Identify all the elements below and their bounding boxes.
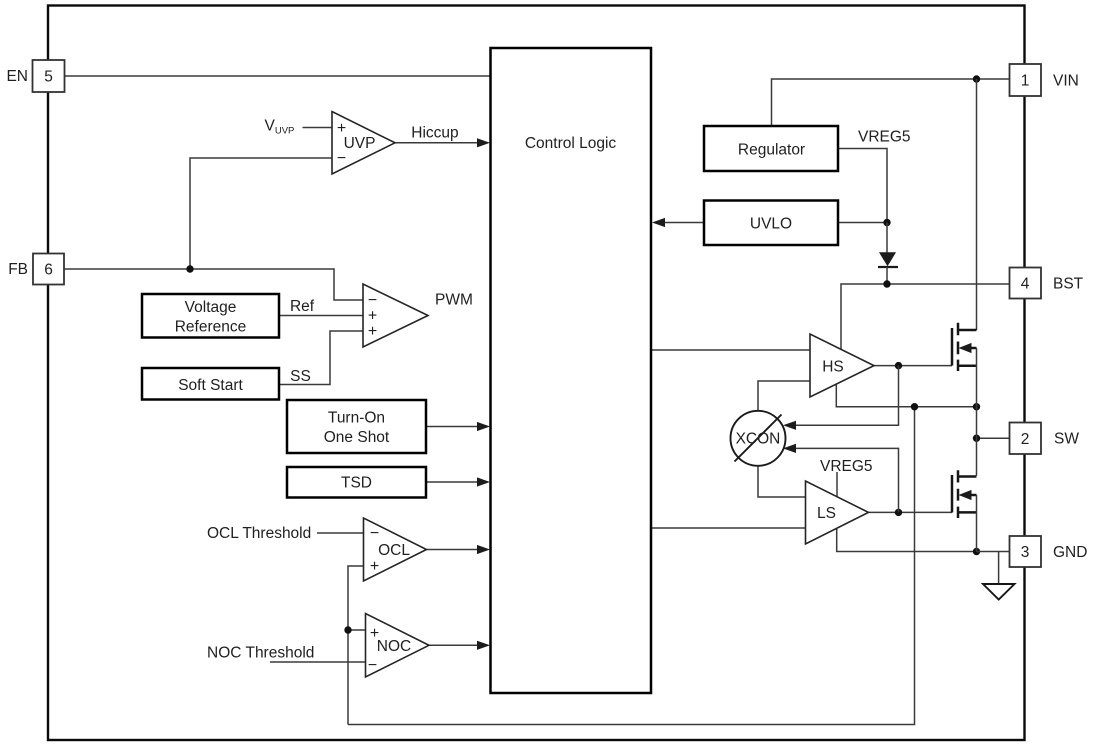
wire LS lower rail to GND <box>837 529 977 552</box>
op-amp PWM comparator <box>363 284 428 347</box>
svg-text:3: 3 <box>1021 544 1030 561</box>
arrowhead TSD <box>477 477 490 486</box>
svg-text:+: + <box>370 558 379 575</box>
wire SW rail between FETs <box>976 407 978 476</box>
wire LS output up to XCON <box>796 448 899 512</box>
svg-text:GND: GND <box>1053 544 1087 561</box>
XCON cross-conduction block <box>731 411 786 466</box>
wire HS output down to XCON <box>796 366 899 426</box>
svg-text:XCON: XCON <box>736 431 781 448</box>
node sense junction <box>344 626 351 633</box>
svg-text:SS: SS <box>290 368 311 385</box>
svg-text:OCL Threshold: OCL Threshold <box>207 525 311 542</box>
op-amp NOC comparator <box>366 614 430 678</box>
wire SW to pin <box>977 437 1010 439</box>
ground symbol <box>998 552 1000 585</box>
arrowhead OCL <box>477 545 490 554</box>
arrowhead XCON lower <box>783 444 796 453</box>
svg-text:−: − <box>370 525 379 542</box>
arrowhead UVLO <box>652 218 665 227</box>
node GND junction <box>973 548 980 555</box>
svg-text:+: + <box>368 308 377 325</box>
svg-text:One Shot: One Shot <box>324 429 390 446</box>
svg-text:Voltage: Voltage <box>185 299 237 316</box>
wire FB branch to UVP minus <box>190 158 332 269</box>
wire HS lower rail to SW <box>836 385 976 407</box>
wire VUVP input <box>303 127 333 129</box>
node sense line junction <box>911 403 918 410</box>
svg-text:TSD: TSD <box>341 475 372 492</box>
diode D1 cathode wire <box>886 267 888 284</box>
svg-text:VREG5: VREG5 <box>820 458 873 475</box>
svg-text:Soft Start: Soft Start <box>178 377 243 394</box>
svg-text:Reference: Reference <box>175 319 247 336</box>
pin 2 SW <box>1010 423 1042 455</box>
svg-text:LS: LS <box>817 505 836 522</box>
diode D1 <box>879 252 896 266</box>
svg-text:HS: HS <box>822 359 844 376</box>
node VREG5-UVLO junction <box>883 219 890 226</box>
wire HS output to FET gate <box>874 365 952 367</box>
svg-text:1: 1 <box>1021 73 1030 90</box>
svg-text:−: − <box>368 292 377 309</box>
transistor Q2 low-side FET <box>952 470 977 551</box>
node SW pin junction <box>973 435 980 442</box>
svg-text:Ref: Ref <box>290 298 315 315</box>
node LS gate junction <box>895 509 902 516</box>
arrowhead hiccup <box>477 138 490 147</box>
svg-text:4: 4 <box>1021 276 1030 293</box>
wire OCL plus / current sense vertical <box>348 566 364 725</box>
svg-text:−: − <box>368 657 377 674</box>
pin 3 GND <box>1010 536 1042 567</box>
pin 4 BST <box>1010 268 1042 299</box>
svg-text:BST: BST <box>1053 276 1084 293</box>
wire BST line <box>841 284 1010 349</box>
svg-text:VIN: VIN <box>1053 73 1079 90</box>
op-amp OCL comparator <box>364 518 427 581</box>
wire EN pin to Control Logic <box>65 75 491 77</box>
wire TSD output <box>426 481 478 483</box>
svg-text:FB: FB <box>8 261 28 278</box>
block Soft Start <box>142 368 279 400</box>
pin 1 VIN <box>1010 64 1042 96</box>
wire XCON bottom stub to LS <box>758 466 806 497</box>
arrowhead NOC <box>477 641 490 650</box>
block Voltage Reference <box>142 294 279 338</box>
pin 6 FB <box>33 254 64 285</box>
op-amp UVP comparator <box>332 112 395 175</box>
wire OCL Threshold input <box>317 532 364 534</box>
arrowhead turn-on <box>477 422 490 431</box>
svg-text:Control Logic: Control Logic <box>525 135 617 152</box>
block UVLO <box>704 201 838 246</box>
svg-text:−: − <box>337 150 346 167</box>
wire LS output to FET gate <box>869 511 953 513</box>
wire bottom current sense return <box>348 407 915 725</box>
wire XCON top stub to HS <box>758 381 810 411</box>
svg-text:UVLO: UVLO <box>750 215 792 232</box>
wire UVLO right to VREG5 <box>838 222 887 224</box>
svg-text:OCL: OCL <box>378 542 410 559</box>
svg-text:6: 6 <box>44 262 53 279</box>
svg-text:NOC Threshold: NOC Threshold <box>207 645 314 662</box>
buffer LS driver <box>806 481 869 544</box>
svg-text:Hiccup: Hiccup <box>411 125 458 142</box>
transistor Q1 high-side FET <box>952 323 977 407</box>
svg-text:5: 5 <box>44 69 53 86</box>
block Control Logic <box>491 48 652 693</box>
wire Regulator output VREG5 <box>838 149 887 223</box>
wire SS <box>279 331 363 385</box>
wire VREG5 stub to LS <box>836 472 838 497</box>
svg-text:+: + <box>368 323 377 340</box>
wire NOC plus input <box>348 629 366 631</box>
node HS gate junction <box>895 362 902 369</box>
svg-text:+: + <box>337 120 346 137</box>
svg-text:UVP: UVP <box>344 135 376 152</box>
node VIN junction <box>973 75 980 82</box>
svg-text:PWM: PWM <box>435 292 473 309</box>
svg-text:SW: SW <box>1054 431 1079 448</box>
svg-text:Turn-On: Turn-On <box>328 410 385 427</box>
wire VIN line to regulator and pin <box>772 79 1010 126</box>
wire FB to PWM comparator minus <box>64 269 363 300</box>
wire Hiccup UVP output <box>395 142 478 144</box>
wire Control Logic to LS driver <box>651 527 806 529</box>
wire Turn-On One Shot output <box>426 426 478 428</box>
svg-text:EN: EN <box>6 68 28 85</box>
svg-text:+: + <box>370 625 379 642</box>
wire NOC Threshold input <box>270 661 366 663</box>
wire Ref <box>279 315 363 317</box>
wire UVLO output arrow to Control Logic <box>664 222 704 224</box>
wire OCL output <box>427 549 479 551</box>
arrowhead XCON upper <box>783 421 796 430</box>
wire GND to pin <box>977 551 1010 553</box>
block TSD <box>287 467 426 498</box>
block Regulator <box>704 126 838 171</box>
node SW rail junction <box>973 403 980 410</box>
block Turn-On One Shot <box>287 400 426 453</box>
diode D1 anode wire <box>886 223 888 253</box>
wire Control Logic to HS driver <box>651 349 810 351</box>
svg-text:Regulator: Regulator <box>738 142 805 159</box>
wire NOC output <box>429 644 478 646</box>
node BST junction <box>883 280 890 287</box>
svg-text:2: 2 <box>1021 431 1030 448</box>
node FB junction <box>186 265 193 272</box>
pin 5 EN <box>33 60 65 92</box>
svg-text:NOC: NOC <box>377 638 411 655</box>
buffer HS driver <box>810 334 874 397</box>
svg-text:VREG5: VREG5 <box>858 129 911 146</box>
wire VIN down to HS FET drain <box>976 79 978 330</box>
